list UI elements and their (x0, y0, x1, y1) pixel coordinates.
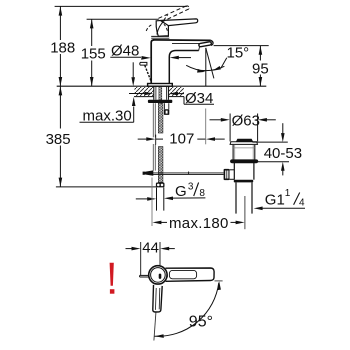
faucet body column left edge (151, 40, 154, 84)
dim 44 ext lines (140, 242, 142, 275)
drain center line (244, 196, 246, 229)
deck cross-section bottom line left of hole (134, 96, 154, 98)
D34 right arrow (169, 92, 178, 96)
base plate (148, 84, 173, 87)
pop-up vertical rod lower segment (152, 144, 154, 171)
15-degree vertical reference line (205, 48, 207, 86)
arc arrowhead right (212, 66, 221, 71)
faucet spout top edge (153, 39, 211, 42)
max30 upper tick (132, 62, 134, 78)
red exclamation mark (110, 263, 114, 286)
sink top line (252, 141, 287, 143)
dim 188 extension line (55, 5, 187, 7)
mounting nut below deck (148, 100, 172, 103)
faucet spout inner top line (172, 42, 208, 44)
dim 385 bottom extension line (56, 186, 156, 188)
15-degree slanted stream line (206, 48, 214, 79)
label D34 callout (183, 97, 185, 105)
drain locknut (234, 180, 253, 183)
shank inner lines (155, 87, 157, 100)
shank center threaded stud (159, 87, 162, 100)
arc arrowhead bottom (155, 334, 164, 338)
svg-text:95: 95 (252, 61, 269, 78)
lever handle (closed position) (161, 19, 198, 26)
svg-text:4: 4 (299, 197, 305, 208)
drain side port (230, 169, 235, 171)
horizontal pop-up linkage rod (151, 172, 224, 174)
svg-text:188: 188 (50, 40, 75, 57)
hose thread stub (156, 187, 158, 210)
top view body circle inner (151, 268, 166, 283)
top view pop-up knob (140, 274, 149, 276)
lever inner detail (169, 270, 196, 278)
drain plug knob (236, 139, 253, 142)
rotated lever (95 deg position) (153, 285, 162, 312)
dim G3/8 (136, 198, 148, 200)
dashed cap mark lower (164, 24, 168, 31)
spout tip outer curve (211, 40, 213, 45)
faucet inner corner / underside of spout (169, 51, 198, 84)
dashed lever tip (187, 6, 190, 9)
svg-text:max.180: max.180 (169, 215, 228, 232)
dim 155 line (91, 19, 93, 46)
arc arrowhead left (197, 69, 205, 73)
shank walls through deck (153, 86, 155, 100)
pop-up vertical rod upper segment (152, 103, 154, 137)
drain flange (230, 142, 257, 145)
dashed pivot arc left (146, 24, 153, 31)
svg-text:3: 3 (188, 182, 194, 193)
tick on linkage rod (188, 172, 190, 175)
svg-text:Ø34: Ø34 (185, 90, 213, 107)
aerator at spout tip (199, 42, 212, 47)
svg-text:G: G (175, 183, 187, 200)
svg-text:107: 107 (169, 130, 194, 147)
dim 44 (126, 248, 133, 250)
supply hose upper segment (158, 103, 163, 133)
cartridge mark (159, 274, 162, 279)
svg-text:8: 8 (199, 188, 205, 199)
side port knurled cap (224, 169, 230, 180)
dim 40-53 (282, 123, 284, 133)
sink bottom line (250, 161, 289, 163)
arc arrowhead top (217, 281, 221, 290)
dim 107 (138, 138, 148, 140)
dim 188 line (59, 6, 61, 40)
svg-text:40-53: 40-53 (264, 145, 302, 162)
dim 95 extension line (214, 45, 269, 47)
top view lever fills (160, 268, 214, 281)
dim 155 extension line (87, 18, 159, 20)
faucet body cap seam lines (151, 35, 169, 37)
svg-text:G1: G1 (265, 191, 285, 208)
second hose stub (163, 103, 165, 109)
svg-text:385: 385 (46, 131, 71, 148)
aerator-underside join (198, 47, 201, 51)
drain: D63 ext lines (229, 114, 231, 142)
second hose nut (164, 109, 169, 115)
deck hatch left zone (135, 87, 154, 96)
pop-up rod slanting into base (145, 65, 152, 81)
lever cap (pivot housing) (156, 20, 168, 36)
deck hatch right zone (169, 87, 184, 96)
svg-text:155: 155 (81, 46, 106, 63)
drain lower body (233, 163, 235, 180)
rod clamp cone (144, 170, 153, 175)
D48 right arrow (170, 56, 179, 60)
lever cap inner curve (157, 21, 164, 34)
supply hose lower segment (158, 147, 163, 183)
drain tailpipe (235, 182, 237, 213)
deck / counter top surface line (57, 85, 267, 87)
15-degree angle arc (186, 65, 224, 70)
lever handle raised (dashed) upper line (159, 6, 187, 18)
dashed cap mark upper (164, 15, 168, 20)
drain upper body (neck) (232, 145, 234, 160)
107 left ext tick (155, 135, 157, 145)
svg-text:1: 1 (285, 188, 291, 199)
lever handle raised (dashed) lower line (162, 9, 190, 22)
pop-up rod knob (side view) (140, 62, 147, 65)
dim max.180 (151, 178, 153, 227)
label G1 1/4 (254, 207, 263, 211)
top view lever horizontal (165, 268, 214, 281)
rotated lever extension line (154, 313, 156, 341)
svg-text:Ø63: Ø63 (232, 112, 260, 129)
svg-text:15°: 15° (227, 45, 250, 62)
D34 left arrow (129, 93, 146, 95)
drain rubber seal (230, 159, 258, 163)
95 degree arc (155, 283, 219, 337)
107 right extension line (205, 109, 207, 145)
dim 385 line (59, 86, 61, 128)
dim 95 line (259, 46, 261, 61)
hose end nut (156, 183, 165, 188)
deck cross-section bottom line right of hole (169, 96, 185, 98)
top view body circle outer (149, 266, 167, 284)
dim D63 (210, 119, 222, 121)
svg-text:44: 44 (142, 239, 159, 256)
15-degree leader (221, 58, 227, 69)
lever bottom extension line (215, 280, 223, 282)
svg-text:95°: 95° (189, 314, 213, 331)
